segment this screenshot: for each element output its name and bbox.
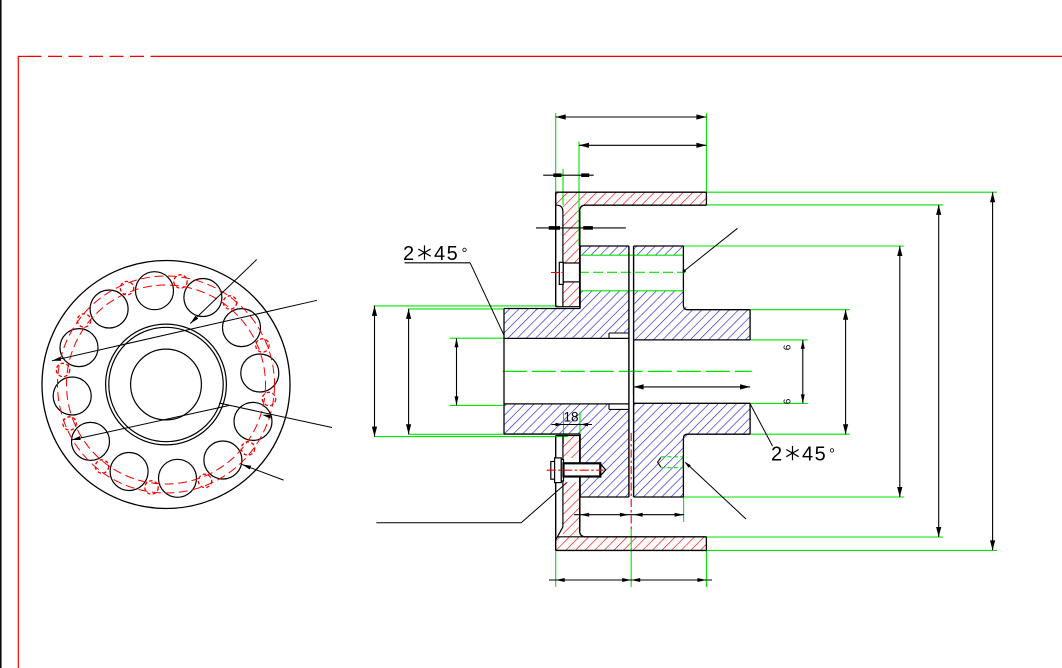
svg-text:6: 6 — [783, 398, 794, 404]
svg-text:2: 2 — [403, 243, 414, 265]
svg-text:2: 2 — [771, 444, 782, 466]
svg-text:°: ° — [829, 446, 835, 463]
svg-text:45: 45 — [802, 444, 827, 466]
svg-text:45: 45 — [434, 243, 459, 265]
svg-text:18: 18 — [564, 410, 579, 425]
svg-text:6: 6 — [783, 344, 794, 350]
svg-text:°: ° — [462, 245, 468, 262]
